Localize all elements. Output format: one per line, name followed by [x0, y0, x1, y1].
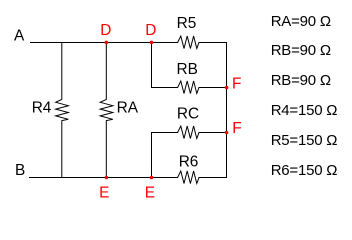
svg-text:RB=90 Ω: RB=90 Ω — [271, 42, 331, 59]
svg-text:D: D — [145, 22, 156, 39]
svg-text:RA: RA — [117, 100, 139, 117]
svg-text:RB: RB — [177, 61, 198, 78]
svg-text:RB=90 Ω: RB=90 Ω — [271, 72, 331, 89]
svg-text:R6: R6 — [179, 154, 199, 171]
svg-text:F: F — [232, 76, 241, 93]
svg-text:R5: R5 — [177, 15, 197, 32]
svg-text:E: E — [99, 185, 109, 202]
svg-text:RA=90 Ω: RA=90 Ω — [271, 13, 331, 30]
svg-text:R6=150 Ω: R6=150 Ω — [271, 162, 338, 179]
svg-text:R4=150 Ω: R4=150 Ω — [271, 102, 338, 119]
svg-text:A: A — [14, 28, 25, 45]
svg-text:R5=150 Ω: R5=150 Ω — [271, 132, 338, 149]
svg-text:B: B — [15, 162, 25, 179]
svg-text:F: F — [232, 120, 241, 137]
svg-text:E: E — [145, 185, 155, 202]
svg-text:RC: RC — [177, 105, 199, 122]
svg-text:D: D — [100, 22, 111, 39]
svg-text:R4: R4 — [32, 100, 52, 117]
